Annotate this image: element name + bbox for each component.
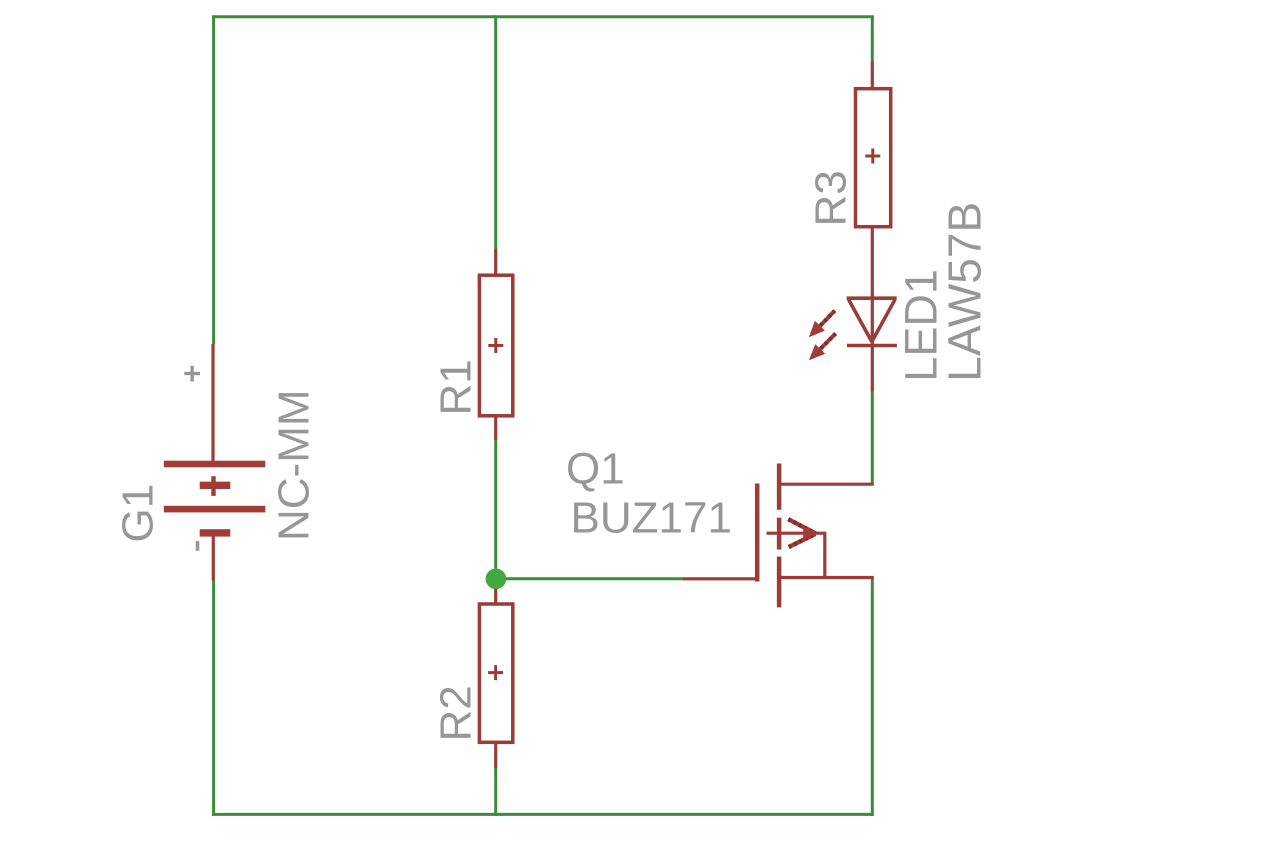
svg-text:NC-MM: NC-MM [270, 389, 319, 541]
transistor Q1 substrate arrow shaft [767, 532, 827, 535]
transistor Q1 substrate arrow upper barb [788, 519, 815, 533]
resistor R1 origin cross [488, 338, 503, 353]
transistor Q1 bulk connection wire [823, 533, 826, 579]
wire: middle vertical R1 to junction [494, 439, 497, 579]
resistor R1 top pin lead [494, 249, 497, 276]
resistor R3 bottom pin lead [871, 227, 874, 298]
battery G1 polarity + mark [184, 366, 200, 382]
wire: left vertical upper (battery + net) [212, 15, 215, 344]
svg-text:BUZ171: BUZ171 [571, 493, 732, 542]
battery G1 negative short plate (cell 2) [200, 529, 231, 536]
svg-text:R2: R2 [432, 685, 481, 741]
LED LED1 bottom pin lead [871, 346, 874, 392]
svg-text:R1: R1 [432, 359, 481, 415]
wire: R2 to bottom net [494, 767, 497, 816]
wire: top horizontal net [212, 15, 874, 18]
battery G1 negative short plate (cell 1) [200, 482, 231, 489]
resistor R3 origin cross [865, 149, 880, 164]
transistor Q1 gate bar [755, 484, 760, 582]
resistor R2 origin cross [488, 665, 503, 680]
transistor Q1 channel bottom segment / source lead [777, 557, 782, 608]
LED LED1 cathode bar [847, 344, 897, 348]
battery G1 polarity - mark [196, 541, 200, 551]
wire: right vertical upper (top net to R3) [871, 15, 874, 62]
resistor R3 top pin lead [871, 62, 874, 91]
transistor Q1 drain wire [780, 483, 874, 486]
transistor Q1 gate wire (red) [683, 577, 756, 580]
wire: right vertical lower (Q1 source to bottom net) [871, 578, 874, 816]
transistor Q1 channel middle segment [777, 518, 782, 550]
svg-text:Q1: Q1 [566, 444, 625, 493]
transistor Q1 substrate arrow lower barb [789, 534, 816, 547]
LED LED1 emission arrow 2 [809, 334, 836, 361]
LED LED1 anode top bar [847, 296, 897, 300]
battery G1 positive long plate (cell 2) [164, 506, 265, 513]
junction node (R1/R2/gate) [486, 569, 507, 590]
wire: middle vertical from top net to R1 [494, 15, 497, 250]
battery G1 top pin lead [211, 344, 214, 463]
battery G1 bottom pin lead [212, 534, 215, 581]
LED LED1 triangle right side [872, 300, 895, 342]
battery G1 positive long plate (cell 1) [164, 461, 265, 468]
LED LED1 triangle left side [849, 300, 872, 342]
wire: bottom horizontal net [212, 813, 874, 816]
wire: gate net horizontal (junction to Q1 gate) [496, 577, 684, 580]
resistor R2 top pin lead [494, 589, 497, 605]
LED LED1 through lead [871, 296, 874, 346]
resistor R1 bottom pin lead [494, 416, 497, 440]
LED LED1 emission arrow 1 [809, 311, 835, 338]
resistor R1 body [479, 275, 512, 416]
resistor R2 bottom pin lead [494, 743, 497, 769]
resistor R3 body [856, 89, 891, 227]
svg-text:G1: G1 [114, 484, 163, 543]
battery G1 inter-cell tick [211, 476, 215, 496]
wire: left vertical lower (battery - net) [212, 580, 215, 816]
svg-text:LAW57B: LAW57B [939, 202, 991, 382]
transistor Q1 source wire [780, 576, 874, 579]
transistor Q1 channel top segment / drain lead [777, 464, 782, 510]
wire: right vertical middle (LED1 to Q1 drain) [871, 390, 874, 484]
svg-text:R3: R3 [807, 170, 856, 226]
resistor R2 body [479, 604, 512, 742]
transistor Q1 substrate arrow head [803, 526, 816, 540]
